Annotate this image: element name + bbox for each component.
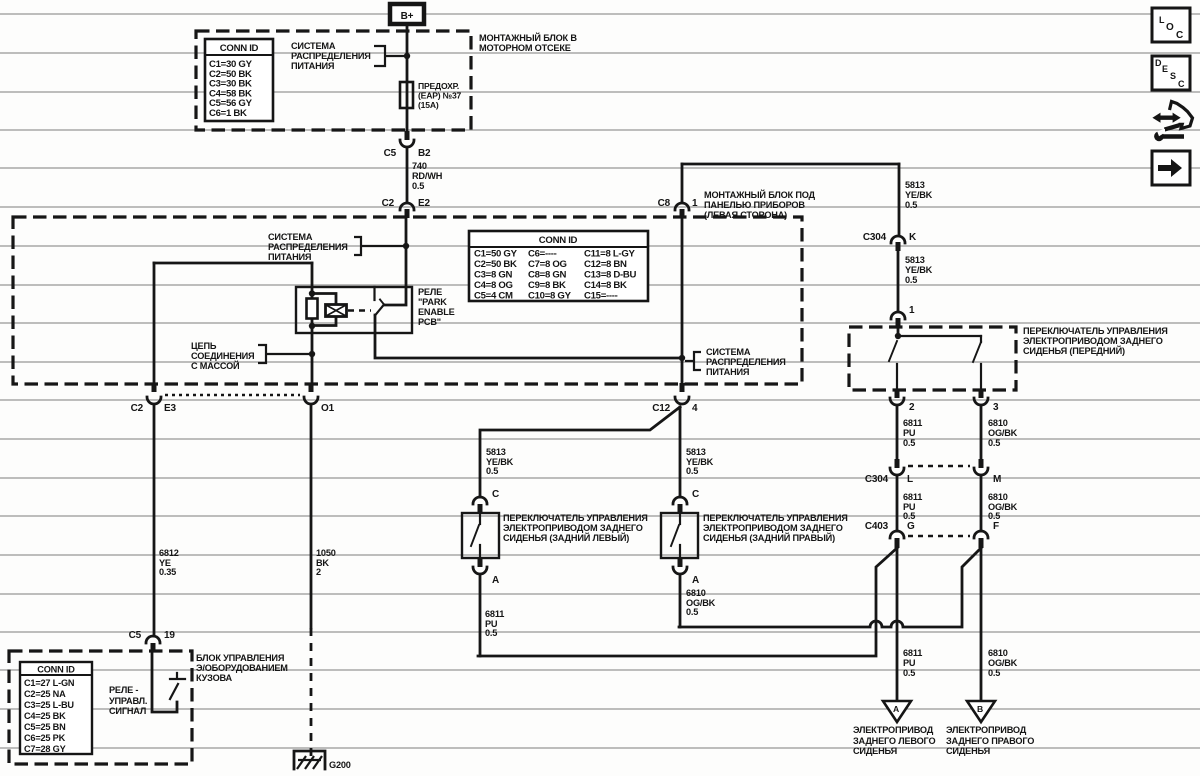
svg-text:0.5: 0.5 (988, 438, 1000, 448)
wire 6810 C304 to C403 (980, 477, 983, 531)
svg-text:(15A): (15A) (418, 100, 439, 110)
relay suppression element (crossed box) (326, 305, 347, 317)
svg-text:E: E (1162, 64, 1168, 74)
svg-text:CONN ID: CONN ID (220, 43, 259, 54)
rear-right seat switch (box) (661, 513, 698, 558)
connector rear-right switch pin A (673, 558, 699, 586)
svg-text:Э/ОБОРУДОВАНИЕМ: Э/ОБОРУДОВАНИЕМ (196, 663, 288, 673)
wire branch to E3 (154, 262, 312, 265)
svg-text:0.5: 0.5 (686, 466, 698, 476)
relay suppression branch (312, 294, 336, 326)
engine compartment fuse block (dashed box) (196, 31, 471, 130)
connector rear-right switch pin C (673, 489, 699, 513)
connector C12 pin 4 (652, 383, 698, 414)
svg-text:C2: C2 (131, 403, 144, 414)
svg-text:1050: 1050 (316, 548, 336, 558)
svg-text:РЕЛЕ -: РЕЛЕ - (109, 685, 138, 695)
svg-text:PCB": PCB" (418, 317, 441, 327)
svg-text:ПЕРЕКЛЮЧАТЕЛЬ УПРАВЛЕНИЯ: ПЕРЕКЛЮЧАТЕЛЬ УПРАВЛЕНИЯ (703, 513, 848, 523)
svg-text:C8: C8 (658, 198, 671, 209)
svg-text:РАСПРЕДЕЛЕНИЯ: РАСПРЕДЕЛЕНИЯ (291, 51, 371, 61)
svg-text:C: C (1176, 30, 1183, 41)
svg-text:C3=25 L-BU: C3=25 L-BU (24, 700, 74, 710)
svg-text:OG/BK: OG/BK (988, 658, 1018, 668)
svg-text:C403: C403 (865, 521, 889, 532)
svg-text:G200: G200 (329, 760, 351, 770)
label relay (418, 287, 455, 327)
wire 6811 C304 to C403 (896, 477, 899, 531)
connector C304 pin K (863, 232, 917, 251)
svg-text:"PARK: "PARK (418, 297, 447, 307)
svg-text:СИДЕНЬЯ (ЗАДНИЙ ЛЕВЫЙ): СИДЕНЬЯ (ЗАДНИЙ ЛЕВЫЙ) (503, 532, 629, 543)
connector C5 / B2 (384, 131, 431, 159)
svg-text:6810: 6810 (988, 418, 1008, 428)
svg-text:B: B (977, 704, 983, 714)
svg-text:C6=1 BK: C6=1 BK (209, 108, 247, 119)
connector C5 pin 19 (129, 630, 176, 652)
front seat switch (dashed box) (849, 327, 1016, 390)
icon LOC box (1152, 8, 1190, 42)
label body control module (196, 653, 288, 683)
connector table CONN ID (fuse block) (205, 39, 273, 121)
svg-text:M: M (993, 474, 1001, 485)
svg-text:6811: 6811 (903, 418, 922, 428)
svg-text:0.5: 0.5 (988, 668, 1000, 678)
svg-text:C6=25 PK: C6=25 PK (24, 733, 66, 743)
node junction coil bottom (309, 323, 315, 329)
svg-text:C14=8 BK: C14=8 BK (584, 280, 627, 291)
svg-text:C2=50 BK: C2=50 BK (474, 259, 517, 270)
svg-text:0.35: 0.35 (159, 567, 176, 577)
wire relay output down and right to C8 net (375, 315, 682, 358)
svg-text:6811: 6811 (485, 609, 504, 619)
svg-text:ЭЛЕКТРОПРИВОД: ЭЛЕКТРОПРИВОД (946, 725, 1027, 735)
wire 5813 from C12 to rear-right switch (679, 407, 682, 497)
wire 6810 pin3 to C304 M (980, 407, 983, 459)
svg-text:0.5: 0.5 (905, 200, 917, 210)
battery terminal B+ (390, 4, 424, 24)
svg-text:B2: B2 (418, 148, 431, 159)
svg-text:C12=8 BN: C12=8 BN (584, 259, 627, 270)
svg-text:РЕЛЕ: РЕЛЕ (418, 287, 442, 297)
svg-text:0.5: 0.5 (903, 511, 915, 521)
connector C403 pin F (974, 521, 999, 548)
ground G200 (294, 751, 351, 770)
wire 6811 pin2 to C304 L (896, 407, 899, 459)
svg-text:ЭЛЕКТРОПРИВОДОМ ЗАДНЕГО: ЭЛЕКТРОПРИВОДОМ ЗАДНЕГО (503, 523, 643, 533)
svg-text:СИГНАЛ: СИГНАЛ (109, 706, 146, 716)
svg-text:C304: C304 (863, 232, 887, 243)
svg-text:C2: C2 (382, 198, 395, 209)
connector C2 / E2 (382, 198, 431, 218)
connector C304 pin L (865, 459, 913, 485)
wire 5813 right top (898, 164, 901, 235)
wire 6811 from rear-left switch joining C403 G (478, 548, 897, 656)
svg-text:C9=8 BK: C9=8 BK (528, 280, 566, 291)
svg-text:YE/BK: YE/BK (905, 190, 933, 200)
wire C403 G down to motor A (896, 548, 899, 701)
svg-text:1: 1 (692, 198, 698, 209)
svg-text:PU: PU (903, 428, 916, 438)
svg-text:ПИТАНИЯ: ПИТАНИЯ (291, 61, 334, 71)
svg-text:0.5: 0.5 (905, 275, 917, 285)
svg-text:5813: 5813 (686, 447, 706, 457)
svg-text:CONN ID: CONN ID (37, 665, 75, 675)
svg-text:ПАНЕЛЬЮ ПРИБОРОВ: ПАНЕЛЬЮ ПРИБОРОВ (704, 200, 805, 210)
relay switch contact (375, 287, 385, 316)
arrow terminal A (left rear seat motor) (883, 701, 911, 722)
svg-text:5813: 5813 (486, 447, 506, 457)
label junction block under instrument panel (704, 189, 816, 220)
front switch internals (889, 327, 981, 390)
svg-text:СИДЕНЬЯ (ПЕРЕДНИЙ): СИДЕНЬЯ (ПЕРЕДНИЙ) (1023, 345, 1125, 356)
svg-text:O: O (1166, 22, 1174, 33)
wire 5813 to front switch (897, 251, 900, 311)
svg-text:PU: PU (903, 658, 916, 668)
svg-text:СИДЕНЬЯ: СИДЕНЬЯ (853, 746, 897, 756)
svg-text:C8=8 GN: C8=8 GN (528, 270, 567, 281)
svg-text:C13=8 D-BU: C13=8 D-BU (584, 270, 637, 281)
svg-text:19: 19 (164, 630, 175, 641)
svg-text:0.5: 0.5 (903, 668, 915, 678)
svg-text:ЗАДНЕГО ЛЕВОГО: ЗАДНЕГО ЛЕВОГО (853, 736, 935, 746)
arrow terminal B (right rear seat motor) (967, 701, 995, 722)
svg-text:6810: 6810 (988, 648, 1008, 658)
svg-text:C1=50 GY: C1=50 GY (474, 249, 518, 260)
svg-text:C5: C5 (129, 630, 142, 641)
svg-text:ЦЕПЬ: ЦЕПЬ (191, 341, 217, 351)
svg-text:C: C (1178, 79, 1185, 89)
label relay control signal (109, 685, 147, 716)
svg-text:C2=25 NA: C2=25 NA (24, 689, 66, 699)
svg-text:G: G (907, 521, 915, 532)
svg-text:С МАССОЙ: С МАССОЙ (191, 360, 239, 371)
svg-text:C5=4 CM: C5=4 CM (474, 291, 513, 302)
wire 6812 YE from E3 (153, 406, 156, 636)
svg-text:2: 2 (909, 402, 915, 413)
wire C8 net vertical (681, 218, 684, 389)
svg-text:6810: 6810 (686, 588, 706, 598)
instrument panel junction block (dashed box, left side) (13, 217, 802, 384)
svg-text:4: 4 (692, 403, 698, 414)
svg-text:ЭЛЕКТРОПРИВОДОМ ЗАДНЕГО: ЭЛЕКТРОПРИВОДОМ ЗАДНЕГО (1023, 336, 1163, 346)
svg-text:ПРЕДОХР.: ПРЕДОХР. (418, 81, 459, 91)
svg-text:D: D (1155, 58, 1162, 68)
wire 6810 from rear-right switch joining C403 F with hops (679, 548, 981, 627)
connector rear-left switch pin C (473, 489, 499, 513)
wire E2 down into relay (384, 218, 406, 305)
node junction E2 wire / bracket (403, 243, 409, 249)
svg-text:O1: O1 (321, 403, 335, 414)
svg-text:ПИТАНИЯ: ПИТАНИЯ (706, 367, 749, 377)
svg-text:СИДЕНЬЯ (ЗАДНИЙ ПРАВЫЙ): СИДЕНЬЯ (ЗАДНИЙ ПРАВЫЙ) (703, 532, 835, 543)
rear-left seat switch (box) (462, 513, 499, 558)
connector table CONN ID (body control module) (20, 662, 92, 754)
svg-text:ENABLE: ENABLE (418, 307, 455, 317)
svg-text:УПРАВЛ.: УПРАВЛ. (109, 696, 147, 706)
node junction relay output / C8 wire (679, 355, 685, 361)
relay coil wire (311, 263, 314, 301)
svg-text:A: A (893, 704, 899, 714)
svg-text:C6=----: C6=---- (528, 249, 557, 260)
svg-text:C: C (692, 489, 699, 500)
label front seat switch (1023, 326, 1168, 356)
fuse EAP No37 15A (400, 81, 462, 110)
connector C8 pin 1 (658, 198, 698, 218)
svg-text:C7=28 GY: C7=28 GY (24, 744, 66, 754)
body control module (dashed box) (9, 651, 192, 764)
svg-text:СИСТЕМА: СИСТЕМА (291, 41, 336, 51)
svg-text:C4=25 BK: C4=25 BK (24, 711, 66, 721)
relay coil element (307, 299, 318, 319)
svg-text:ПИТАНИЯ: ПИТАНИЯ (268, 252, 311, 262)
label right rear seat motor (946, 725, 1034, 756)
connector front switch pin 2 (890, 390, 915, 413)
wire 6811 from rear-left switch (479, 576, 482, 656)
relay PARK ENABLE PCB (box) (296, 287, 412, 333)
svg-text:E2: E2 (418, 198, 430, 209)
label left rear seat motor (853, 725, 935, 756)
label power distribution system (top) with bracket (291, 41, 404, 71)
svg-text:СИСТЕМА: СИСТЕМА (268, 232, 313, 242)
svg-text:ЭЛЕКТРОПРИВОД: ЭЛЕКТРОПРИВОД (853, 725, 934, 735)
svg-text:C5=25 BN: C5=25 BN (24, 722, 66, 732)
svg-text:СИСТЕМА: СИСТЕМА (706, 347, 751, 357)
svg-text:СОЕДИНЕНИЯ: СОЕДИНЕНИЯ (191, 351, 254, 361)
svg-text:C4=8 OG: C4=8 OG (474, 280, 513, 291)
svg-text:A: A (492, 575, 499, 586)
label rear-right switch (703, 513, 848, 543)
svg-text:L: L (1159, 15, 1165, 25)
svg-text:C15=----: C15=---- (584, 291, 618, 302)
node junction coil top (309, 290, 315, 296)
svg-text:B+: B+ (401, 11, 414, 22)
svg-text:YE/BK: YE/BK (905, 265, 933, 275)
icon component locator (arrow through part with wrench) (1152, 102, 1192, 142)
svg-text:ПЕРЕКЛЮЧАТЕЛЬ УПРАВЛЕНИЯ: ПЕРЕКЛЮЧАТЕЛЬ УПРАВЛЕНИЯ (1023, 326, 1168, 336)
node junction at B+ wire / bracket (404, 53, 410, 59)
svg-text:КУЗОВА: КУЗОВА (196, 673, 233, 683)
svg-text:C7=8 OG: C7=8 OG (528, 259, 567, 270)
svg-text:СИДЕНЬЯ: СИДЕНЬЯ (946, 746, 990, 756)
svg-text:3: 3 (993, 402, 999, 413)
icon next-page arrow box (1152, 151, 1190, 185)
svg-text:C5: C5 (384, 148, 397, 159)
svg-text:5813: 5813 (905, 180, 925, 190)
wire C403 F down to motor B (980, 548, 983, 701)
svg-text:0.5: 0.5 (903, 438, 915, 448)
svg-text:C: C (492, 489, 499, 500)
wire 5813 branch from C12 to rear-left switch (480, 407, 680, 497)
svg-text:6811: 6811 (903, 492, 922, 502)
svg-text:RD/WH: RD/WH (412, 171, 443, 181)
svg-text:ПЕРЕКЛЮЧАТЕЛЬ УПРАВЛЕНИЯ: ПЕРЕКЛЮЧАТЕЛЬ УПРАВЛЕНИЯ (503, 513, 648, 523)
svg-text:A: A (692, 575, 699, 586)
svg-text:ЗАДНЕГО ПРАВОГО: ЗАДНЕГО ПРАВОГО (946, 736, 1034, 746)
svg-text:C1=27 L-GN: C1=27 L-GN (24, 678, 75, 688)
svg-text:МОТОРНОМ ОТСЕКЕ: МОТОРНОМ ОТСЕКЕ (479, 43, 571, 53)
svg-text:(EAP) №37: (EAP) №37 (418, 91, 462, 101)
wire C8 top run to seat switch (682, 163, 899, 166)
dotted link E3-O1 same connector (165, 394, 300, 396)
svg-text:2: 2 (316, 567, 321, 577)
svg-text:5813: 5813 (905, 255, 925, 265)
svg-text:РАСПРЕДЕЛЕНИЯ: РАСПРЕДЕЛЕНИЯ (268, 242, 348, 252)
connector C403 pin G (865, 521, 915, 548)
svg-text:1: 1 (909, 305, 915, 316)
svg-text:0.5: 0.5 (486, 466, 498, 476)
svg-text:(ЛЕВАЯ СТОРОНА): (ЛЕВАЯ СТОРОНА) (704, 210, 787, 220)
connector rear-left switch pin A (473, 558, 499, 586)
wire 1050 BK from O1 (310, 406, 313, 628)
label power distribution system (inside junction block) with bracket (268, 232, 403, 262)
svg-text:6812: 6812 (159, 548, 179, 558)
connector C2 / E3 (131, 263, 177, 414)
svg-text:E3: E3 (164, 403, 176, 414)
svg-text:МОНТАЖНЫЙ БЛОК В: МОНТАЖНЫЙ БЛОК В (479, 32, 577, 43)
svg-text:6811: 6811 (903, 648, 922, 658)
svg-text:0.5: 0.5 (988, 511, 1000, 521)
label power distribution system (right, inside junction block) with bracket (685, 347, 786, 377)
svg-text:0.5: 0.5 (686, 607, 698, 617)
svg-text:6810: 6810 (988, 492, 1008, 502)
svg-text:ЭЛЕКТРОПРИВОДОМ ЗАДНЕГО: ЭЛЕКТРОПРИВОДОМ ЗАДНЕГО (703, 523, 843, 533)
dotted link C304 L-M (908, 465, 970, 468)
svg-text:F: F (993, 521, 999, 532)
connector C304 pin M (974, 459, 1001, 485)
svg-text:C10=8 GY: C10=8 GY (528, 291, 572, 302)
node junction ground bracket / coil wire (309, 351, 315, 357)
wire B+ down to fuse block (406, 25, 409, 131)
connector front switch pin 1 (891, 305, 915, 327)
svg-text:OG/BK: OG/BK (988, 428, 1018, 438)
svg-text:РАСПРЕДЕЛЕНИЯ: РАСПРЕДЕЛЕНИЯ (706, 357, 786, 367)
svg-text:C304: C304 (865, 474, 889, 485)
svg-text:L: L (907, 474, 913, 485)
svg-text:C3=8 GN: C3=8 GN (474, 270, 513, 281)
wire 740 RD/WH (406, 149, 409, 202)
svg-text:CONN ID: CONN ID (539, 235, 578, 246)
label ground circuit with bracket (191, 341, 309, 371)
connector table CONN ID (junction block) (469, 231, 648, 302)
svg-text:0.5: 0.5 (485, 628, 497, 638)
svg-text:МОНТАЖНЫЙ БЛОК ПОД: МОНТАЖНЫЙ БЛОК ПОД (704, 189, 816, 200)
wire dashed to ground (310, 628, 313, 756)
relay mechanical linkage (dashed) (348, 309, 371, 311)
label rear-left switch (503, 513, 648, 543)
relay contact inside body control module (152, 652, 185, 712)
svg-text:C12: C12 (652, 403, 670, 414)
svg-text:K: K (909, 232, 917, 243)
svg-text:БЛОК УПРАВЛЕНИЯ: БЛОК УПРАВЛЕНИЯ (196, 653, 284, 663)
svg-text:C11=8 L-GY: C11=8 L-GY (584, 249, 635, 260)
dotted link C403 G-F (908, 535, 970, 538)
wire 6810 from rear-right switch (679, 576, 682, 627)
label fuse block (479, 32, 577, 53)
svg-text:S: S (1170, 71, 1176, 81)
svg-text:0.5: 0.5 (412, 181, 424, 191)
connector O1 (304, 383, 335, 414)
connector front switch pin 3 (974, 390, 999, 413)
svg-text:740: 740 (412, 161, 427, 171)
icon DESC box (1152, 56, 1190, 90)
